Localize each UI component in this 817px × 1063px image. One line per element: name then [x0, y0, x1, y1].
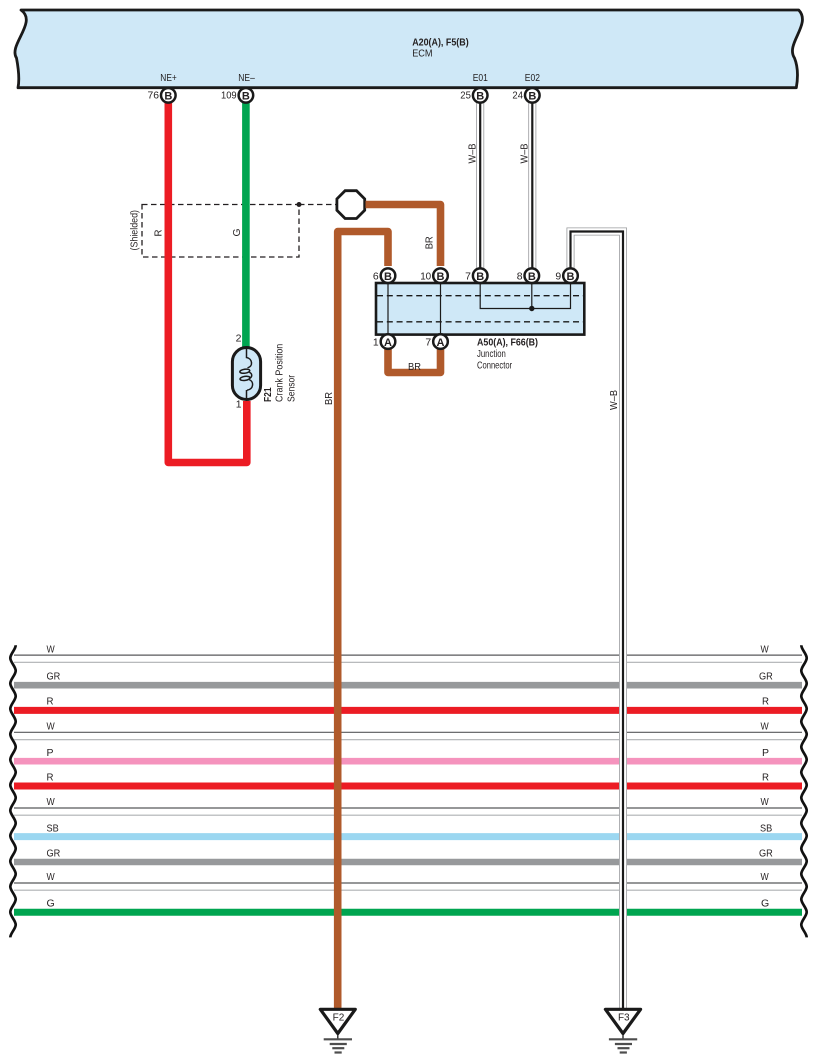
- junction pin 9 B: [555, 268, 577, 283]
- svg-text:SB: SB: [47, 823, 59, 835]
- wire R row3: [14, 696, 802, 711]
- svg-text:W: W: [761, 721, 769, 733]
- junction pin 6 B: [373, 268, 395, 283]
- svg-text:2: 2: [236, 333, 242, 345]
- svg-text:BR: BR: [323, 392, 335, 405]
- internal bus pins 7-8-9: [480, 283, 570, 309]
- svg-text:GR: GR: [759, 671, 773, 683]
- svg-text:NE+: NE+: [160, 72, 177, 84]
- junction pin 10 B: [420, 268, 448, 283]
- svg-text:A50(A), F66(B): A50(A), F66(B): [477, 337, 538, 349]
- wire P row5: [14, 747, 802, 761]
- wire W-B E01 to junction pin 7: [476, 100, 484, 270]
- svg-text:Sensor: Sensor: [286, 375, 298, 402]
- svg-text:W: W: [761, 871, 769, 883]
- ECM pin 76 B: [148, 88, 176, 103]
- wire W row1: [14, 643, 802, 662]
- junction pin 1 A: [373, 334, 395, 349]
- junction connector A50(A),F66(B): [376, 283, 584, 335]
- wire GR row9: [14, 847, 802, 862]
- svg-text:B: B: [528, 271, 536, 283]
- svg-text:A: A: [384, 337, 392, 349]
- wire BR junction pin 6 to ground F2: [338, 232, 388, 1009]
- svg-text:BR: BR: [408, 361, 421, 373]
- svg-text:109: 109: [221, 90, 237, 102]
- junction pin 7 A: [425, 334, 447, 349]
- ECM connector band A20(A),F5(B): [15, 10, 803, 88]
- svg-text:P: P: [47, 747, 54, 759]
- svg-text:B: B: [528, 91, 536, 103]
- svg-text:Junction: Junction: [477, 348, 506, 360]
- wire W-B E02 to junction pin 8: [528, 100, 536, 270]
- svg-text:W–B: W–B: [518, 144, 530, 164]
- svg-text:Connector: Connector: [477, 359, 512, 371]
- svg-text:E01: E01: [473, 72, 488, 84]
- svg-text:ECM: ECM: [412, 47, 432, 59]
- svg-text:B: B: [476, 91, 484, 103]
- svg-text:GR: GR: [759, 847, 773, 859]
- svg-text:W: W: [47, 643, 55, 655]
- svg-text:W: W: [47, 871, 55, 883]
- internal link pin10-pin7A: [440, 283, 442, 335]
- shield dashed box: [142, 205, 299, 258]
- junction pin 8 B: [517, 268, 539, 283]
- crank position sensor F21: [232, 348, 260, 400]
- svg-text:W: W: [47, 721, 55, 733]
- ECM pin 24 B: [512, 88, 539, 103]
- junction pin 7 B: [465, 268, 487, 283]
- wire W row7: [14, 796, 802, 815]
- svg-text:F3: F3: [618, 1013, 630, 1024]
- svg-text:P: P: [762, 747, 769, 759]
- svg-text:G: G: [47, 898, 55, 910]
- ECM pin 25 B: [460, 88, 487, 103]
- svg-text:SB: SB: [760, 823, 772, 835]
- wire R row6: [14, 772, 802, 787]
- svg-text:76: 76: [148, 90, 160, 102]
- junction dot on shield: [297, 202, 302, 207]
- wire G row11: [14, 898, 802, 913]
- svg-text:7: 7: [465, 270, 471, 282]
- sensor coil: [247, 349, 252, 368]
- svg-text:GR: GR: [47, 671, 61, 683]
- svg-text:F2: F2: [333, 1013, 345, 1024]
- wire W row4: [14, 721, 802, 740]
- wire GR row2: [14, 671, 802, 686]
- wire BR octagon to junction pin 10: [366, 205, 441, 267]
- svg-text:B: B: [384, 271, 392, 283]
- svg-text:G: G: [231, 229, 243, 237]
- svg-text:R: R: [153, 229, 165, 236]
- svg-text:1: 1: [373, 336, 379, 348]
- svg-text:B: B: [476, 271, 484, 283]
- svg-text:Crank Position: Crank Position: [273, 344, 285, 402]
- svg-text:R: R: [47, 696, 54, 708]
- wire BR U-loop pin 1A to pin 7A: [388, 348, 441, 373]
- svg-text:(Shielded): (Shielded): [128, 210, 140, 251]
- svg-text:25: 25: [460, 90, 471, 102]
- svg-text:10: 10: [420, 270, 431, 282]
- ECM pin 109 B: [221, 88, 253, 103]
- svg-text:W–B: W–B: [608, 390, 620, 410]
- ground F2: [320, 1009, 355, 1052]
- svg-text:W: W: [761, 796, 769, 808]
- svg-text:6: 6: [373, 270, 379, 282]
- svg-text:W: W: [47, 796, 55, 808]
- svg-text:G: G: [761, 898, 769, 910]
- shield octagon: [337, 191, 365, 219]
- svg-text:7: 7: [425, 336, 431, 348]
- svg-text:B: B: [164, 91, 172, 103]
- wire W row10: [14, 871, 802, 890]
- band left squiggle edge: [10, 645, 15, 937]
- svg-text:W–B: W–B: [466, 144, 478, 164]
- svg-text:B: B: [437, 271, 445, 283]
- svg-text:B: B: [567, 271, 575, 283]
- ground F3: [605, 1009, 640, 1052]
- svg-text:B: B: [242, 91, 250, 103]
- svg-text:8: 8: [517, 270, 523, 282]
- svg-text:A: A: [437, 337, 445, 349]
- svg-text:1: 1: [236, 399, 242, 411]
- svg-text:BR: BR: [424, 236, 436, 249]
- band right squiggle edge: [801, 645, 806, 937]
- svg-text:R: R: [762, 772, 769, 784]
- wire G (NE-): [242, 99, 250, 350]
- svg-text:W: W: [761, 643, 769, 655]
- dashed shield drain wire: [299, 204, 338, 206]
- wire R (NE+): [168, 99, 247, 463]
- svg-text:R: R: [762, 696, 769, 708]
- svg-text:E02: E02: [525, 72, 540, 84]
- internal link pin6-pin1: [387, 283, 389, 335]
- wire SB row8: [14, 823, 802, 837]
- svg-text:R: R: [47, 772, 54, 784]
- wire W-B junction pin 9 to ground F3: [571, 232, 624, 1009]
- svg-text:9: 9: [555, 270, 561, 282]
- svg-text:F21: F21: [262, 387, 274, 402]
- svg-text:NE–: NE–: [238, 72, 255, 84]
- svg-text:24: 24: [512, 90, 523, 102]
- svg-text:GR: GR: [47, 847, 61, 859]
